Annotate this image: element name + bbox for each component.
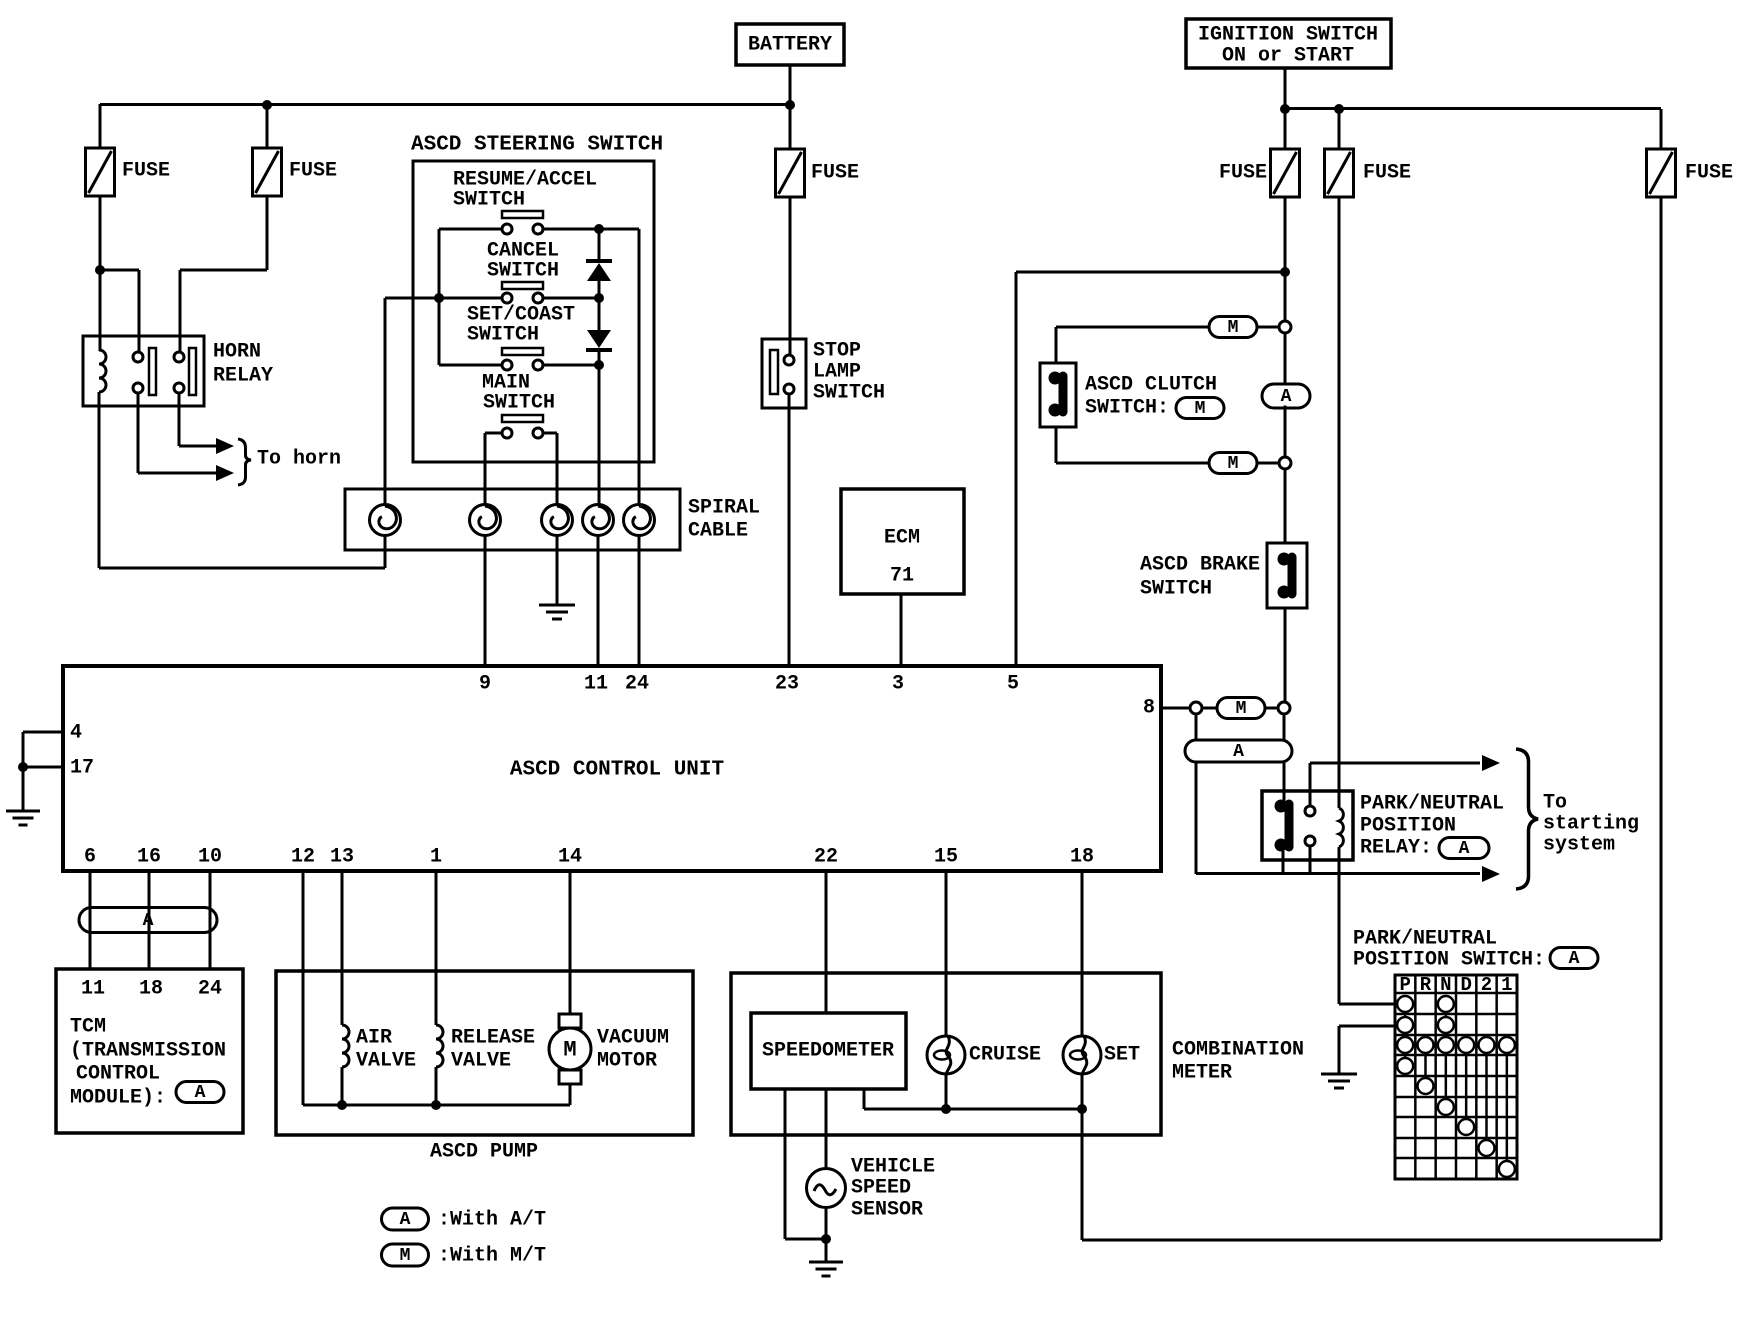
svg-text:SWITCH:: SWITCH: bbox=[1085, 397, 1169, 420]
svg-text:4: 4 bbox=[70, 722, 82, 745]
svg-text:POSITION: POSITION bbox=[1360, 815, 1456, 838]
svg-text:CRUISE: CRUISE bbox=[969, 1044, 1041, 1067]
svg-text:SWITCH: SWITCH bbox=[487, 260, 559, 283]
svg-text:ASCD PUMP: ASCD PUMP bbox=[430, 1141, 538, 1164]
svg-text:M: M bbox=[1195, 399, 1206, 419]
svg-text:M: M bbox=[1228, 318, 1239, 338]
svg-text:SET: SET bbox=[1104, 1044, 1140, 1067]
svg-text:starting: starting bbox=[1543, 813, 1639, 836]
svg-text:VEHICLE: VEHICLE bbox=[851, 1156, 935, 1179]
svg-text:POSITION SWITCH:: POSITION SWITCH: bbox=[1353, 949, 1545, 972]
svg-text:M: M bbox=[563, 1038, 576, 1063]
svg-text:SPEED: SPEED bbox=[851, 1177, 911, 1200]
svg-text::With A/T: :With A/T bbox=[438, 1209, 546, 1232]
svg-text:24: 24 bbox=[625, 673, 649, 696]
svg-text:16: 16 bbox=[137, 846, 161, 869]
svg-text:FUSE: FUSE bbox=[1363, 162, 1411, 185]
svg-text:RELEASE: RELEASE bbox=[451, 1027, 535, 1050]
svg-text:A: A bbox=[1281, 387, 1292, 407]
svg-text:MODULE):: MODULE): bbox=[70, 1087, 166, 1110]
svg-text:HORN: HORN bbox=[213, 341, 261, 364]
svg-text:VALVE: VALVE bbox=[356, 1050, 416, 1073]
svg-text:FUSE: FUSE bbox=[811, 162, 859, 185]
svg-text:BATTERY: BATTERY bbox=[748, 34, 832, 57]
svg-text:ON or START: ON or START bbox=[1222, 45, 1354, 68]
svg-text:5: 5 bbox=[1007, 673, 1019, 696]
svg-text:A: A bbox=[1233, 742, 1244, 762]
svg-text:CABLE: CABLE bbox=[688, 520, 748, 543]
svg-text:FUSE: FUSE bbox=[289, 160, 337, 183]
svg-text:STOP: STOP bbox=[813, 340, 861, 363]
svg-text:9: 9 bbox=[479, 673, 491, 696]
svg-text:M: M bbox=[1236, 699, 1247, 719]
svg-text:SWITCH: SWITCH bbox=[813, 382, 885, 405]
svg-text:(TRANSMISSION: (TRANSMISSION bbox=[70, 1040, 226, 1063]
svg-text:24: 24 bbox=[198, 978, 222, 1001]
svg-text:3: 3 bbox=[892, 673, 904, 696]
svg-text:22: 22 bbox=[814, 846, 838, 869]
svg-text:SWITCH: SWITCH bbox=[1140, 578, 1212, 601]
svg-text:CONTROL: CONTROL bbox=[76, 1063, 160, 1086]
svg-text::With M/T: :With M/T bbox=[438, 1245, 546, 1268]
svg-text:TCM: TCM bbox=[70, 1016, 106, 1039]
svg-text:A: A bbox=[195, 1083, 206, 1103]
svg-text:10: 10 bbox=[198, 846, 222, 869]
svg-text:M: M bbox=[1228, 454, 1239, 474]
svg-text:VACUUM: VACUUM bbox=[597, 1027, 669, 1050]
svg-text:R: R bbox=[1420, 974, 1432, 996]
svg-text:11: 11 bbox=[584, 673, 608, 696]
svg-text:A: A bbox=[1569, 949, 1580, 969]
svg-text:23: 23 bbox=[775, 673, 799, 696]
svg-text:P: P bbox=[1399, 974, 1410, 996]
svg-text:PARK/NEUTRAL: PARK/NEUTRAL bbox=[1353, 928, 1497, 951]
svg-text:LAMP: LAMP bbox=[813, 361, 861, 384]
svg-text:12: 12 bbox=[291, 846, 315, 869]
svg-text:SWITCH: SWITCH bbox=[483, 392, 555, 415]
svg-text:IGNITION SWITCH: IGNITION SWITCH bbox=[1198, 24, 1378, 47]
svg-text:To horn: To horn bbox=[257, 448, 341, 471]
svg-text:PARK/NEUTRAL: PARK/NEUTRAL bbox=[1360, 793, 1504, 816]
svg-text:system: system bbox=[1543, 834, 1615, 857]
svg-text:2: 2 bbox=[1481, 974, 1492, 996]
svg-text:8: 8 bbox=[1143, 697, 1155, 720]
svg-text:SPIRAL: SPIRAL bbox=[688, 497, 760, 520]
svg-text:ASCD CLUTCH: ASCD CLUTCH bbox=[1085, 374, 1217, 397]
svg-text:A: A bbox=[143, 911, 154, 931]
svg-text:AIR: AIR bbox=[356, 1027, 392, 1050]
svg-text:SENSOR: SENSOR bbox=[851, 1199, 923, 1222]
svg-text:15: 15 bbox=[934, 846, 958, 869]
svg-text:ASCD STEERING SWITCH: ASCD STEERING SWITCH bbox=[411, 134, 663, 157]
svg-text:FUSE: FUSE bbox=[122, 160, 170, 183]
svg-text:ASCD BRAKE: ASCD BRAKE bbox=[1140, 554, 1260, 577]
svg-text:N: N bbox=[1440, 974, 1451, 996]
svg-text:FUSE: FUSE bbox=[1685, 162, 1733, 185]
svg-text:SPEEDOMETER: SPEEDOMETER bbox=[762, 1040, 894, 1063]
svg-text:FUSE: FUSE bbox=[1219, 162, 1267, 185]
svg-text:RELAY: RELAY bbox=[213, 365, 273, 388]
svg-text:1: 1 bbox=[1501, 974, 1512, 996]
svg-text:A: A bbox=[1459, 839, 1470, 859]
svg-text:6: 6 bbox=[84, 846, 96, 869]
svg-text:13: 13 bbox=[330, 846, 354, 869]
svg-text:To: To bbox=[1543, 792, 1567, 815]
svg-text:17: 17 bbox=[70, 757, 94, 780]
svg-text:MOTOR: MOTOR bbox=[597, 1050, 657, 1073]
svg-text:COMBINATION: COMBINATION bbox=[1172, 1039, 1304, 1062]
svg-text:VALVE: VALVE bbox=[451, 1050, 511, 1073]
svg-text:ECM: ECM bbox=[884, 527, 920, 550]
svg-text:D: D bbox=[1460, 974, 1471, 996]
svg-text:18: 18 bbox=[1070, 846, 1094, 869]
svg-text:SWITCH: SWITCH bbox=[467, 324, 539, 347]
svg-text:14: 14 bbox=[558, 846, 582, 869]
svg-text:A: A bbox=[400, 1210, 411, 1230]
svg-text:ASCD CONTROL UNIT: ASCD CONTROL UNIT bbox=[510, 759, 724, 782]
svg-text:1: 1 bbox=[430, 846, 442, 869]
svg-text:71: 71 bbox=[890, 565, 914, 588]
svg-text:18: 18 bbox=[139, 978, 163, 1001]
svg-text:M: M bbox=[400, 1246, 411, 1266]
svg-text:RELAY:: RELAY: bbox=[1360, 837, 1432, 860]
svg-text:SWITCH: SWITCH bbox=[453, 189, 525, 212]
svg-text:METER: METER bbox=[1172, 1062, 1232, 1085]
svg-text:11: 11 bbox=[81, 978, 105, 1001]
